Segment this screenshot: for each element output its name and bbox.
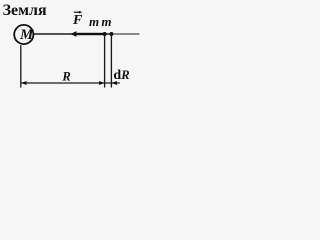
svg-text:Земля: Земля <box>3 2 47 19</box>
svg-text:М: М <box>19 27 34 43</box>
svg-text:F: F <box>72 13 83 28</box>
svg-text:m: m <box>89 14 99 29</box>
svg-text:R: R <box>61 69 70 83</box>
svg-text:m: m <box>101 14 111 29</box>
svg-text:dR: dR <box>113 68 129 83</box>
